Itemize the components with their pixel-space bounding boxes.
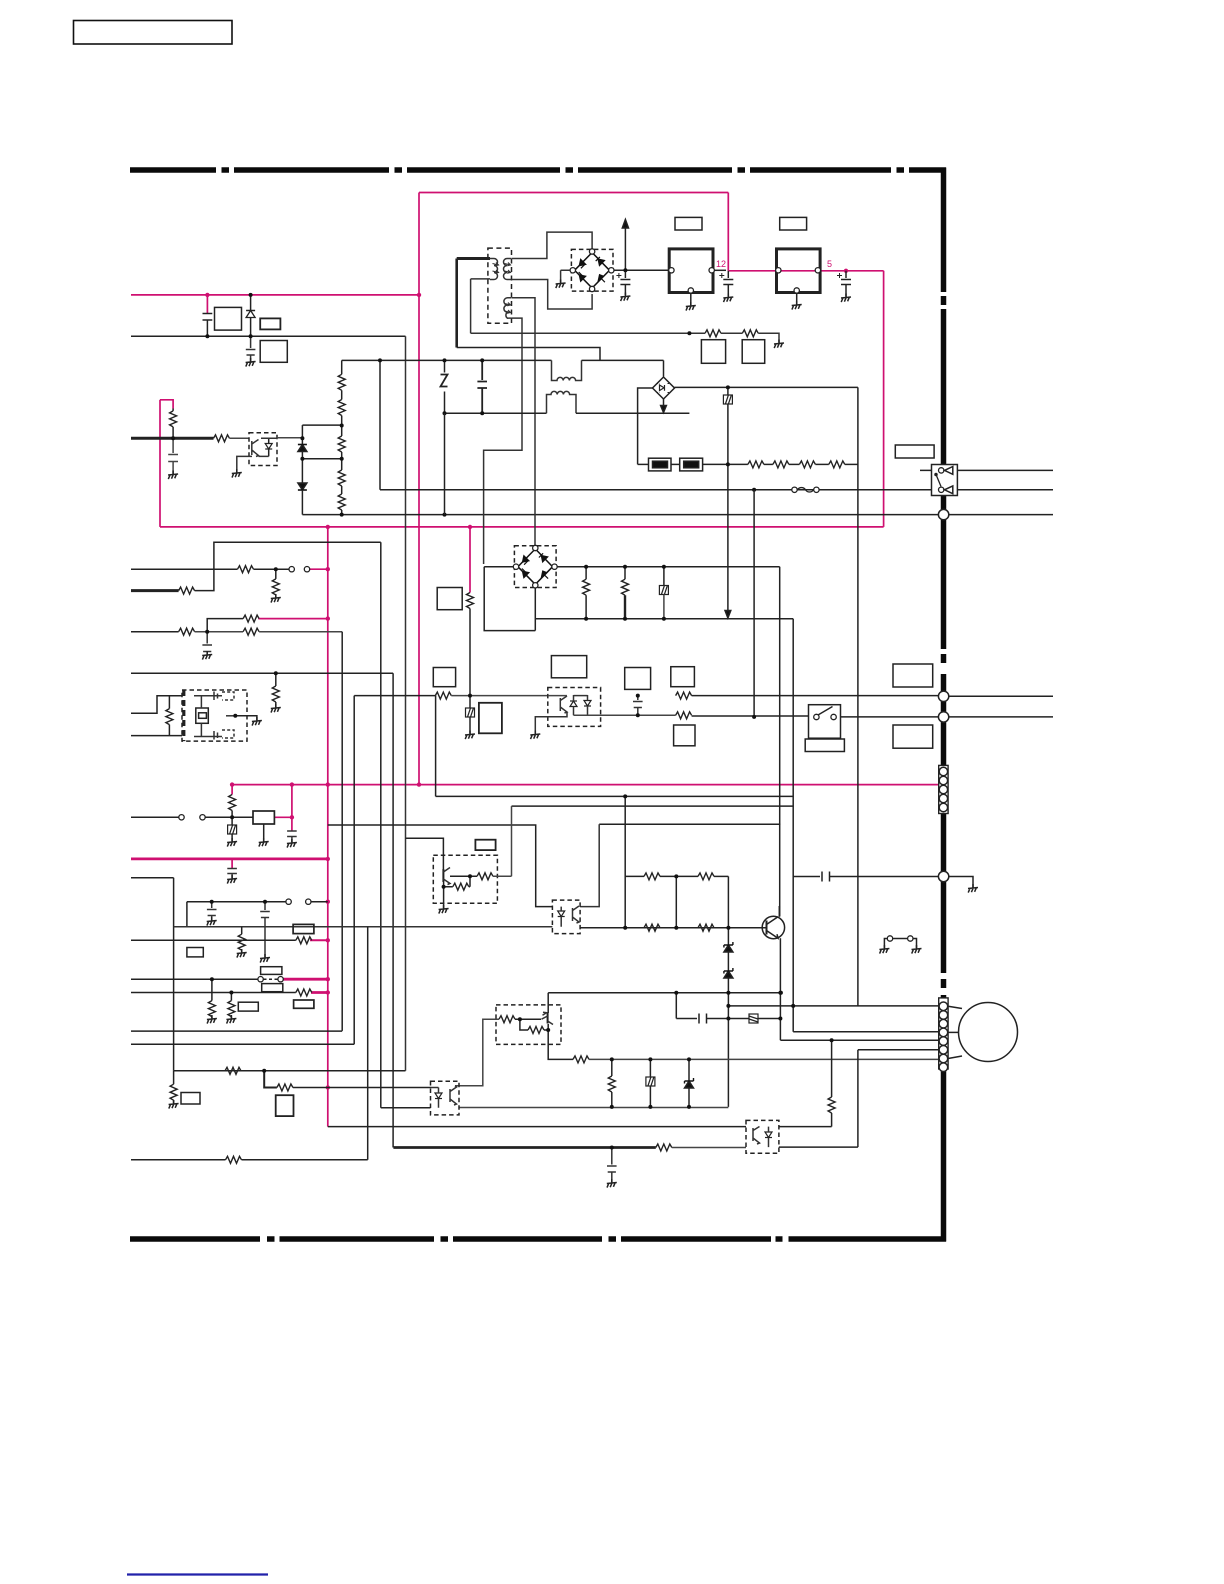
wire R1 to opto PC1 bbox=[230, 437, 250, 439]
wire y824 row bbox=[599, 823, 780, 825]
wire y876 to ground right bbox=[949, 877, 973, 888]
switch S5 contacts bbox=[814, 714, 819, 719]
wire x857 lower segment bbox=[857, 1050, 859, 1147]
connector pin y716 bbox=[938, 712, 948, 722]
wire Q2 base rail bbox=[450, 875, 477, 877]
border bottom dot 3 bbox=[609, 1236, 617, 1242]
wire rail y360 left bbox=[342, 359, 552, 361]
wire xtal row1 y713 bbox=[131, 696, 182, 714]
connector CN1 on border bbox=[939, 765, 948, 813]
wire T1 sec lower pin bbox=[512, 280, 593, 310]
resistor R10 pulldown bbox=[275, 673, 277, 686]
junction dots left section bbox=[205, 334, 209, 338]
crystal X1 gates bbox=[222, 692, 234, 738]
label box IC2 bbox=[780, 217, 807, 230]
thermal fuse TF1 bbox=[792, 487, 797, 492]
resistor R44 bbox=[435, 692, 451, 699]
wire row y901 bbox=[187, 901, 286, 903]
label box Q3 value bbox=[276, 1095, 294, 1116]
stub magenta to R3 bbox=[231, 785, 233, 795]
resistor R35 bbox=[829, 461, 845, 468]
regulator IC2 bbox=[777, 249, 821, 293]
opto PC2 dashed box bbox=[548, 688, 601, 727]
label box R18 value bbox=[238, 1002, 258, 1011]
diamond D10 bottom arrow bbox=[663, 399, 665, 407]
wire row y877 bbox=[131, 877, 174, 879]
net 12V magenta wire bbox=[728, 270, 883, 272]
border top dot 5 bbox=[897, 167, 905, 173]
capacitor C21 polarized bbox=[727, 271, 729, 278]
bridge BD2 pins bbox=[533, 545, 538, 550]
label box PC2 bbox=[551, 656, 586, 678]
switch S1 contacts bbox=[289, 567, 294, 572]
label box IC1 bbox=[675, 217, 702, 230]
wire BD2 bottom pin bbox=[534, 588, 536, 631]
stub magenta from R16 bbox=[311, 991, 328, 994]
border top dot 4 bbox=[738, 167, 746, 173]
wire y1005 row bbox=[728, 1005, 938, 1007]
switch S5 box bbox=[809, 705, 841, 739]
resistor R8 bbox=[243, 628, 259, 635]
capacitor C23 bbox=[477, 360, 487, 413]
wire long vertical x380 bbox=[380, 542, 382, 1108]
capacitor C3 bbox=[168, 438, 178, 474]
stub magenta vertical at C10 bbox=[291, 785, 293, 831]
ground FB1 bbox=[227, 838, 237, 847]
resistor chain R4d bbox=[338, 470, 345, 486]
wire y876 cap row bbox=[793, 876, 820, 878]
capacitor C22 polarized bbox=[845, 271, 847, 278]
wire y806 row bbox=[512, 805, 794, 807]
wire T1 primary top thick bbox=[457, 257, 490, 260]
title label box bbox=[74, 21, 233, 45]
transformer T1 secondary coil bottom bbox=[504, 298, 512, 318]
ground R14 bbox=[237, 949, 247, 958]
net GND magenta thick wire bbox=[131, 858, 328, 861]
crystal X1 rails bbox=[194, 696, 222, 737]
wire y1147 thick row bbox=[393, 1146, 655, 1149]
opto PC4 dashed box bbox=[431, 1081, 460, 1115]
wire y992 row bbox=[548, 992, 780, 994]
label box R30 value bbox=[701, 340, 725, 364]
transformer T1 secondary coil top bbox=[504, 259, 512, 280]
ground IC1 bbox=[686, 302, 696, 311]
wire CN2 to motor bottom bbox=[948, 1056, 962, 1059]
wire x186 drop bbox=[186, 902, 188, 927]
border right seg 2 bbox=[941, 309, 947, 649]
wire row y1044 bbox=[131, 1043, 354, 1045]
border bottom dash 4 bbox=[621, 1236, 771, 1242]
border top dot 2 bbox=[395, 167, 403, 173]
net B+ magenta right drop bbox=[727, 193, 729, 271]
ground PC2 bbox=[530, 731, 540, 740]
diamond diode D10 bbox=[663, 360, 665, 376]
wire row y1031 bbox=[131, 1030, 342, 1032]
label box R16a bbox=[262, 984, 283, 992]
label box IC101 bbox=[215, 307, 242, 330]
zener ZD2 bbox=[724, 968, 733, 978]
arrow up test point bbox=[624, 226, 626, 270]
label box R44 bbox=[433, 668, 455, 687]
resistor R31 bbox=[742, 330, 758, 337]
ground C10 bbox=[287, 839, 297, 848]
ground X1 bbox=[252, 717, 262, 726]
switch S2 contacts bbox=[179, 815, 184, 820]
net VCC magenta left vertical bbox=[159, 400, 161, 527]
resistor R40 bbox=[585, 567, 587, 580]
wire input S1 row y569 bbox=[131, 568, 238, 570]
transistor Q2 dashed box bbox=[433, 855, 497, 903]
wire relay coil rail y489 bbox=[380, 360, 932, 489]
wire step to y1087 bbox=[264, 1071, 277, 1088]
opto PC4 led bbox=[435, 1093, 442, 1099]
wire PC2 emitter ground bbox=[535, 712, 567, 734]
motor M1 bbox=[959, 1003, 1018, 1062]
capacitor C25 bbox=[633, 696, 643, 716]
wire thick AC-L row y438 bbox=[131, 437, 214, 440]
capacitor C1 bbox=[203, 314, 213, 337]
junction dots top section bbox=[687, 331, 691, 335]
resistor R41 bbox=[624, 567, 626, 580]
ground C20 bbox=[620, 293, 630, 302]
opto PC5 led bbox=[765, 1132, 772, 1138]
wire x435 vertical bbox=[435, 696, 437, 797]
resistor R16 bbox=[296, 989, 312, 996]
choke L1 top coil bbox=[552, 360, 582, 380]
wire to Q2 base bbox=[406, 838, 444, 869]
bead FB1 bbox=[231, 817, 233, 824]
wire rail y618 bbox=[535, 618, 793, 620]
ground BD1 bbox=[556, 280, 566, 289]
wire Q2 emitter ground bbox=[443, 882, 445, 908]
border top dash 6 bbox=[909, 167, 946, 173]
bridge rectifier BD1 dashed box bbox=[571, 249, 613, 291]
opto PC4 transistor bbox=[450, 1086, 457, 1105]
wire y1087 to opto PC4 bbox=[293, 1087, 431, 1089]
border top dash 1 bbox=[130, 167, 216, 173]
resistor R1 bbox=[214, 435, 230, 442]
stub magenta from R17 bbox=[310, 939, 328, 941]
transformer T1 primary coil bbox=[490, 259, 498, 280]
resistor R7 bbox=[179, 628, 195, 635]
label box S4 bbox=[261, 967, 282, 975]
transistor Q2 bbox=[442, 869, 444, 882]
wire BD2 out rail y566 bbox=[557, 566, 780, 568]
bead FB2 bbox=[727, 387, 729, 394]
wire input row y673 bbox=[131, 672, 393, 674]
border bottom dot 4 bbox=[776, 1236, 783, 1242]
resistor network bottom R52 bbox=[625, 927, 644, 929]
opto PC3 dashed box bbox=[552, 900, 580, 934]
capacitor C11 bbox=[227, 869, 237, 879]
label box C25 bbox=[625, 668, 651, 690]
border right dot 1 bbox=[941, 296, 947, 305]
wire fuse row y464 bbox=[638, 463, 649, 465]
wire R62 out gray bbox=[493, 806, 512, 876]
ground R15 bbox=[207, 1015, 217, 1024]
transistor Q1 bbox=[762, 916, 784, 938]
resistor R9 bbox=[243, 615, 259, 622]
border top dot 1 bbox=[222, 167, 230, 173]
wire rail y413 left bbox=[445, 412, 547, 414]
wire PC5 bottom out bbox=[779, 1146, 858, 1148]
resistor network right rail bbox=[727, 876, 729, 945]
wire IC2 gnd pin bbox=[796, 294, 798, 305]
wire IC1 gnd pin bbox=[690, 294, 692, 306]
bridge BD2 diodes bbox=[522, 555, 549, 579]
border bottom dot 2 bbox=[441, 1236, 449, 1242]
net AC magenta wire left bbox=[131, 294, 419, 296]
wire x857 down bbox=[857, 387, 859, 1006]
wire y696 beyond border bbox=[949, 695, 1053, 697]
capacitor C13 bbox=[260, 902, 270, 957]
ground C21 bbox=[723, 294, 733, 303]
svg-text:5: 5 bbox=[827, 259, 832, 269]
ground C2 bbox=[246, 358, 256, 367]
border top dot 3 bbox=[566, 167, 574, 173]
net B+ magenta main vertical bbox=[418, 193, 420, 785]
pnp Q3 dashed box bbox=[496, 1005, 561, 1045]
wire CN2 to motor top bbox=[948, 1006, 962, 1008]
switch S4 contacts bbox=[258, 977, 263, 982]
fuse F2 bbox=[680, 458, 703, 471]
regulator IC1 bbox=[669, 249, 713, 293]
resistor R14 bbox=[241, 927, 243, 934]
border top dash 2 bbox=[234, 167, 389, 173]
jumper S6 right ground bbox=[913, 939, 916, 949]
net motor supply magenta wire bbox=[232, 784, 939, 786]
capacitor C10 bbox=[287, 831, 297, 842]
ground R31 bbox=[774, 340, 784, 349]
wire row y1070 bbox=[174, 1070, 406, 1072]
wire input row y631 bbox=[131, 631, 179, 633]
wire thick input row y590 bbox=[131, 589, 179, 592]
resistor R20 below magenta bbox=[467, 593, 474, 609]
wire vertical x173 bbox=[173, 878, 175, 1071]
wire BD2 left loop bbox=[484, 567, 535, 631]
bridge BD1 diamond bbox=[575, 253, 610, 289]
wire IC1 out bbox=[715, 269, 727, 271]
opto PC5 dashed box bbox=[746, 1120, 779, 1153]
ground R18 bbox=[226, 1015, 236, 1024]
wire rail y696 to border bbox=[354, 695, 435, 697]
resistor R17 bbox=[296, 937, 312, 944]
wire y1126 row bbox=[328, 1126, 746, 1128]
border bottom dash 2 bbox=[280, 1236, 435, 1242]
resistor R2 bbox=[172, 409, 174, 411]
resistor chain R4b bbox=[341, 390, 343, 399]
wire T1 sec2 bottom pin bbox=[484, 318, 522, 564]
diode D3 bbox=[298, 483, 307, 490]
label box R16b bbox=[294, 1000, 314, 1008]
resistor R62 bbox=[477, 873, 493, 880]
diode D1 bbox=[250, 295, 252, 310]
wire y1018 row bbox=[676, 993, 697, 1019]
wire xtal row2 y735 bbox=[131, 735, 182, 737]
resistor R46 bbox=[676, 712, 692, 719]
label box R45 bbox=[671, 667, 695, 687]
ground C22 bbox=[841, 294, 851, 303]
wire x444 vertical bbox=[444, 413, 446, 514]
net VDD magenta mid vertical bbox=[327, 527, 329, 1127]
resistor R63 bbox=[444, 876, 470, 886]
relay RL1 contacts bbox=[939, 468, 944, 473]
border bottom dash 3 bbox=[453, 1236, 602, 1242]
junction magenta dots bbox=[205, 293, 209, 297]
bridge rectifier BD2 dashed box bbox=[514, 546, 556, 588]
resistor R45 bbox=[676, 692, 692, 699]
bead FB5 bbox=[728, 1018, 749, 1020]
capacitor C12 bbox=[207, 902, 217, 920]
label box D1 value bbox=[260, 318, 280, 329]
relay RL2 bottom lead bbox=[263, 824, 265, 841]
zener ZD3 bbox=[688, 1059, 690, 1081]
crystal unit X1 box bbox=[182, 690, 247, 741]
wire x779 vertical bbox=[779, 567, 781, 917]
capacitor C5 bbox=[202, 632, 212, 655]
wire y696 right bbox=[692, 695, 939, 697]
resistor R58 bbox=[611, 1059, 613, 1076]
diamond D10 inner diode bbox=[660, 385, 665, 391]
stub magenta to R20 bbox=[469, 527, 471, 593]
resistor R19 bbox=[225, 1067, 241, 1074]
net 5V magenta right side bbox=[883, 271, 885, 527]
bridge BD2 diamond bbox=[518, 549, 553, 585]
switch S4 dashed link bbox=[264, 978, 278, 980]
bead FB6 bbox=[649, 1059, 651, 1077]
switch S3a contacts bbox=[286, 899, 291, 904]
resistor R56 bbox=[520, 1019, 528, 1030]
svg-text:12: 12 bbox=[716, 259, 726, 269]
wire AC-N row y336 bbox=[131, 335, 406, 337]
resistor R22 bbox=[277, 1084, 293, 1091]
wire y1040 row bbox=[780, 1039, 938, 1041]
wire BD1 out bbox=[614, 269, 669, 271]
wire x302 diode chain bbox=[301, 425, 303, 445]
label box R46 bbox=[674, 725, 695, 746]
stub magenta from relay RL2 bbox=[274, 816, 292, 818]
wire y1049 row bbox=[858, 1049, 938, 1051]
net VCC magenta hook to R2 bbox=[160, 400, 173, 409]
ground IC2 bbox=[792, 301, 802, 310]
resistor R23 bbox=[226, 1156, 242, 1163]
bridge BD1 diodes bbox=[579, 258, 606, 282]
opto PC2 transistor bbox=[560, 696, 567, 713]
wire rail y1107 bbox=[381, 1107, 431, 1109]
wire y1031 row bbox=[793, 1031, 938, 1033]
resistor R60 vertical bbox=[831, 1113, 833, 1127]
transformer T1 primary arrows bbox=[493, 263, 499, 274]
stub magenta thick cap C11 bbox=[231, 859, 233, 868]
wire T1 primary vertical thick bbox=[455, 259, 458, 348]
bead FB3 bbox=[663, 567, 665, 586]
resistor R32 bbox=[748, 461, 764, 468]
wire BD1 left to ground bbox=[561, 270, 570, 282]
wire long vertical x405 bbox=[405, 336, 407, 1071]
net B+ magenta top wire bbox=[419, 192, 728, 194]
wire PC1 out y438 bbox=[277, 437, 302, 439]
stub magenta cap C1 bbox=[206, 295, 208, 313]
wire Q3 emitter down bbox=[548, 1024, 573, 1059]
wire long vertical x342 bbox=[341, 632, 343, 1031]
transformer T1 dashed box bbox=[488, 248, 512, 323]
ground C3 bbox=[168, 471, 178, 480]
choke L1 bottom coil bbox=[547, 391, 577, 413]
connector pin on border y514 bbox=[938, 509, 948, 519]
motor connector CN2 bbox=[939, 998, 948, 1069]
opto PC3 led bbox=[558, 911, 565, 917]
label box S5 bbox=[805, 739, 844, 752]
label box R21 value bbox=[181, 1093, 200, 1105]
resistor R15 pulldown bbox=[211, 979, 213, 1000]
junction dots bottom section bbox=[623, 794, 627, 798]
ground FB4 bbox=[465, 731, 475, 740]
wire row y979 bbox=[131, 978, 258, 980]
opto PC2 diodes bbox=[570, 701, 577, 707]
wire x793 vertical bbox=[792, 619, 794, 1032]
wire T1 primary return bbox=[457, 348, 600, 361]
capacitor C31 bbox=[607, 1148, 617, 1183]
ground C12 bbox=[207, 917, 217, 926]
capacitor C32 bbox=[822, 872, 830, 882]
wire PC3 out bottom y927 bbox=[580, 927, 766, 929]
wire x727 down to arrow bbox=[727, 404, 729, 612]
resistor R5b pulldown bbox=[275, 569, 277, 579]
wire row y926 bbox=[174, 926, 553, 928]
border right seg 1 bbox=[941, 168, 947, 293]
opto PC5 transistor bbox=[753, 1127, 760, 1145]
wire PC5 to R60 bbox=[779, 1126, 832, 1128]
wire relay in stub y470 bbox=[920, 469, 941, 471]
connector pin y876 bbox=[938, 871, 948, 881]
ground C11 bbox=[227, 875, 237, 884]
border right dot 2 bbox=[941, 654, 947, 663]
fuse F1 bbox=[649, 458, 672, 471]
ground Q2 bbox=[439, 905, 449, 914]
resistor R55 bbox=[499, 1016, 515, 1023]
resistor chain R4c bbox=[338, 436, 345, 452]
label box R31 value bbox=[742, 340, 765, 364]
wire long vertical x393 bbox=[392, 673, 394, 1147]
wire vertical x367 bbox=[367, 927, 369, 1160]
wire X1 output bbox=[235, 716, 257, 720]
resistor R6 bbox=[179, 587, 195, 594]
label box CN102b bbox=[893, 725, 933, 748]
resistor R18 pulldown bbox=[230, 993, 232, 1001]
wire to x342 vertical bbox=[259, 631, 342, 633]
wire S5 right to border bbox=[841, 716, 939, 718]
stub magenta from switch S1 bbox=[309, 568, 328, 570]
net VCC magenta bus horizontal bbox=[160, 526, 884, 528]
wire diode pair top y425 bbox=[302, 424, 341, 426]
label box IC2 bbox=[187, 948, 203, 957]
opto PC3 transistor bbox=[573, 906, 580, 923]
ground PC1 bbox=[232, 469, 242, 478]
label box Q2 bbox=[475, 840, 495, 850]
ground R21 bbox=[169, 1100, 179, 1109]
resistor R21 below x173 bbox=[173, 1071, 175, 1084]
wire PC1 emitter to ground bbox=[237, 456, 252, 472]
resistor R33 bbox=[773, 461, 789, 468]
resistor network mid rail bbox=[675, 876, 677, 927]
blue footer line bbox=[127, 1573, 268, 1575]
wire y796 row bbox=[436, 795, 794, 797]
wire row y940 bbox=[131, 939, 296, 941]
resistor network R50 top rail bbox=[625, 875, 644, 877]
resistor network left rail bbox=[624, 796, 626, 927]
capacitor C30 bbox=[699, 1014, 727, 1024]
wire D10 left bbox=[638, 388, 653, 464]
